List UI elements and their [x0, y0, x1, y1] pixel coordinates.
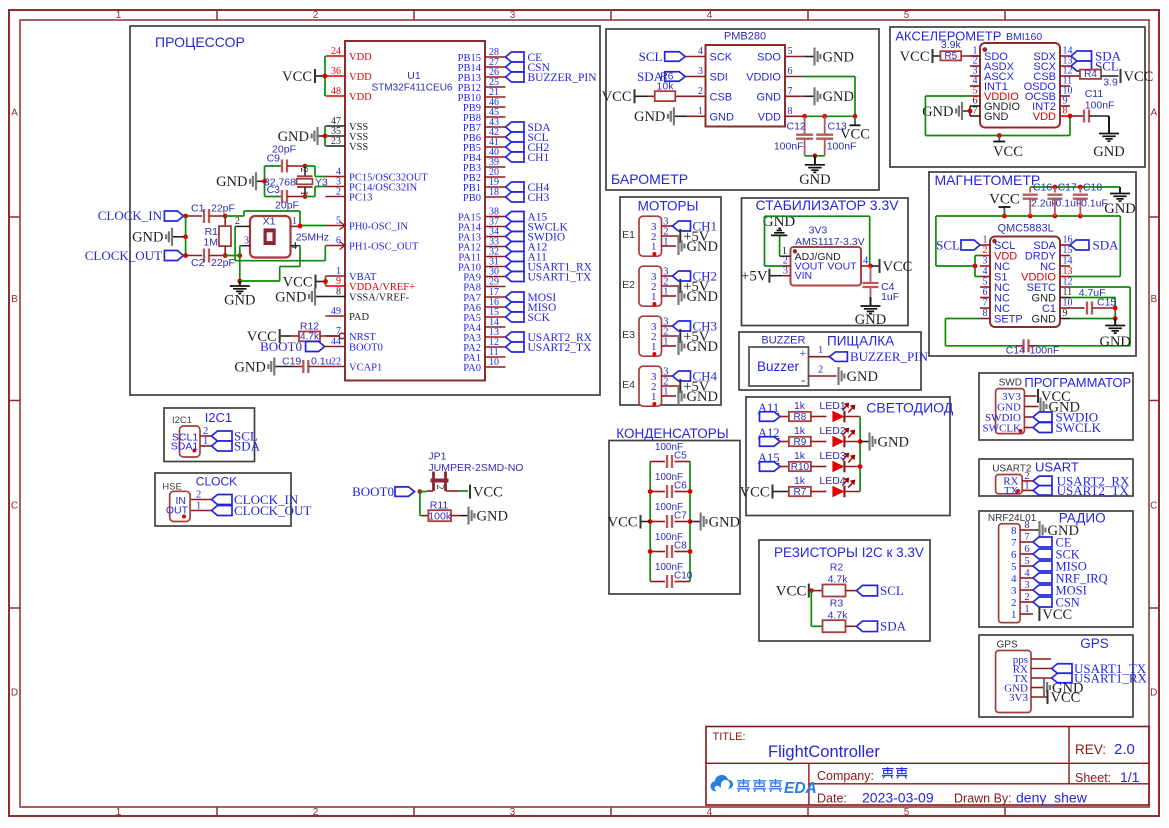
capacitor C12 100nF: [774, 116, 813, 156]
power flag VCC below BMI160: [993, 136, 1023, 161]
svg-text:GND: GND: [878, 434, 909, 450]
svg-text:1k: 1k: [794, 475, 806, 487]
junction C2-R1 node: [223, 253, 228, 258]
pin 1 (SDO): [970, 46, 1008, 64]
wire C1 node to X1 pin1 and PH0: [225, 211, 325, 226]
port SWCLK: [506, 222, 569, 234]
port SCL from BMI160: [1071, 59, 1119, 74]
svg-text:BUZZER_PIN: BUZZER_PIN: [850, 349, 929, 364]
power flag VCC at SWD: [1038, 389, 1071, 405]
block frame I2C1: [164, 408, 255, 462]
svg-text:+5V: +5V: [741, 269, 768, 285]
pin 22 (VCAP1) of U1: [326, 357, 383, 374]
block frame СТАБИЛИЗАТОР 3.3V: [742, 198, 909, 326]
svg-text:SDA: SDA: [880, 619, 907, 634]
pin 2 (VDD): [980, 245, 1017, 263]
ground GND at C11: [1093, 116, 1124, 160]
wire X1 pin3 link: [240, 245, 242, 247]
svg-text:VCC: VCC: [989, 192, 1020, 208]
pin 10 (OCSB): [1025, 86, 1073, 104]
svg-text:4: 4: [1024, 568, 1030, 579]
pin 8 (VDD): [758, 106, 805, 124]
svg-text:I2C1: I2C1: [172, 415, 192, 426]
pin 10 (PA0) of U1: [463, 357, 505, 374]
svg-text:GND: GND: [234, 359, 265, 375]
capacitor C19 0.1u: [282, 356, 332, 374]
pin 11 (GND): [1032, 287, 1073, 305]
svg-text:12: 12: [1063, 277, 1073, 288]
svg-text:C9: C9: [267, 153, 281, 165]
pin 4 (PC15/OSC32OUT) of U1: [326, 167, 429, 184]
svg-text:GND: GND: [757, 91, 782, 103]
svg-text:6: 6: [983, 287, 988, 298]
pin 5 (SDO): [757, 46, 805, 64]
port NRF_IRQ: [1033, 571, 1108, 585]
svg-text:GND: GND: [687, 339, 718, 355]
junction X1 pin1 node: [298, 224, 303, 229]
svg-text:LED2: LED2: [819, 425, 845, 437]
pin 10 (C1): [1042, 298, 1073, 316]
op-amp U2 body PMB280: [706, 31, 786, 127]
svg-text:VCC: VCC: [608, 514, 638, 530]
pin 49 (PAD) of U1: [326, 306, 370, 323]
svg-text:VCC: VCC: [1042, 607, 1072, 623]
svg-text:BUZZER_PIN: BUZZER_PIN: [528, 72, 598, 84]
connector E2: [622, 266, 679, 306]
pin 3 (ASCX): [970, 66, 1015, 84]
junction VCC tap node: [997, 133, 1002, 138]
svg-text:Drawn By:: Drawn By:: [954, 792, 1012, 806]
ground GND at E3: [677, 337, 718, 355]
junction S1 feed: [973, 264, 978, 269]
svg-text:1: 1: [818, 345, 823, 356]
title block texts: [713, 731, 1140, 806]
resistor R6 10k: [648, 71, 675, 102]
svg-text:2: 2: [336, 187, 341, 198]
svg-text:МОТОРЫ: МОТОРЫ: [638, 199, 699, 214]
svg-text:14: 14: [1063, 256, 1073, 267]
svg-text:4: 4: [698, 46, 703, 57]
svg-text:1uF: 1uF: [881, 291, 899, 303]
port USART2_RX: [1033, 473, 1130, 488]
svg-text:LED4: LED4: [819, 475, 845, 487]
svg-text:2: 2: [235, 216, 240, 227]
ground GND at C19: [234, 358, 292, 376]
wire VDD bus: [324, 56, 326, 96]
power flag VCC at R7: [740, 484, 789, 500]
svg-text:USART1_TX: USART1_TX: [528, 272, 593, 284]
svg-text:VCC: VCC: [900, 49, 930, 65]
svg-text:GND: GND: [1093, 144, 1124, 160]
svg-text:R11: R11: [430, 499, 449, 511]
pin 3 (NC): [980, 256, 1010, 274]
svg-text:49: 49: [331, 306, 341, 317]
svg-text:1: 1: [651, 391, 657, 403]
junction VDD-C13: [822, 114, 827, 119]
svg-text:LED3: LED3: [819, 450, 845, 462]
block frame USART: [979, 459, 1133, 496]
svg-text:3: 3: [698, 66, 703, 77]
svg-text:8: 8: [1011, 525, 1017, 537]
LED LED3: [819, 450, 854, 472]
svg-text:R12: R12: [300, 321, 319, 333]
svg-text:МАГНЕТОМЕТР: МАГНЕТОМЕТР: [935, 172, 1041, 188]
svg-text:5: 5: [983, 277, 988, 288]
ground GND below X1: [224, 281, 255, 309]
wire C2 node to X1: [225, 255, 240, 257]
pin 1 (SCL): [980, 235, 1015, 253]
pin 36 (VDD) of U1: [326, 66, 373, 83]
resistor R5 3.9k: [940, 39, 980, 62]
resistor R11 100k: [422, 499, 460, 522]
connector E1: [622, 216, 679, 256]
svg-text:PB0: PB0: [463, 193, 481, 204]
junction cathode bus 2: [858, 464, 863, 469]
port CE: [1033, 535, 1072, 549]
ground GND at GNDIO: [922, 102, 970, 120]
port SCL from I2C1: [212, 429, 258, 444]
svg-text:8: 8: [983, 308, 988, 319]
svg-text:1M: 1M: [203, 237, 218, 249]
wire LED3 cathode: [844, 466, 860, 468]
block frame РЕЗИСТОРЫ I2C к 3.3V: [759, 540, 930, 641]
svg-text:1: 1: [983, 235, 988, 246]
svg-text:GND: GND: [823, 89, 854, 105]
svg-text:A: A: [1150, 108, 1157, 119]
pin 17 (PA7) of U1: [463, 287, 505, 304]
svg-text:Date:: Date:: [817, 792, 847, 806]
op-amp U3 body BMI160: [980, 43, 1060, 128]
svg-text:4: 4: [863, 256, 869, 267]
port USART2_TX: [506, 342, 593, 354]
svg-text:СВЕТОДИОД: СВЕТОДИОД: [866, 400, 953, 416]
svg-text:I2C1: I2C1: [205, 410, 232, 425]
junction cap rail left: [648, 489, 653, 494]
svg-text:USART1_RX: USART1_RX: [1074, 670, 1148, 685]
pin 6 (NC): [980, 287, 1010, 305]
junction cap rail left: [648, 519, 653, 524]
svg-text:2: 2: [313, 807, 319, 818]
svg-text:GND: GND: [634, 109, 665, 125]
wire X1 pin2 to PH1: [235, 246, 325, 261]
svg-text:5: 5: [1011, 561, 1017, 573]
resistor R8 1k: [789, 400, 827, 423]
junction VSS bus: [323, 134, 328, 139]
svg-text:VDD: VDD: [1033, 111, 1056, 123]
svg-text:GND: GND: [922, 104, 953, 120]
ground GND at PMB280 pin1: [634, 107, 686, 125]
svg-text:D: D: [11, 688, 18, 699]
svg-text:R3: R3: [830, 598, 844, 610]
resistor R10 1k: [789, 450, 827, 473]
pin 11 (OSDO): [1024, 76, 1073, 94]
op-amp U1 body STM32F411CEU6: [345, 41, 485, 381]
port CE: [506, 52, 543, 64]
svg-text:PC13: PC13: [349, 192, 372, 203]
resistor R4 3.9: [1080, 69, 1119, 88]
svg-text:C: C: [11, 501, 18, 512]
resistor R1 1M: [203, 216, 231, 256]
svg-text:GND: GND: [132, 230, 163, 246]
svg-text:BUZZER: BUZZER: [761, 335, 805, 347]
junction cap rail right: [688, 519, 693, 524]
svg-text:SCL: SCL: [936, 238, 960, 253]
capacitor C15 4.7uF: [1070, 287, 1116, 315]
svg-text:7: 7: [1011, 537, 1017, 549]
svg-text:D: D: [1150, 688, 1157, 699]
port BOOT0 at JP1: [352, 484, 414, 499]
pin 34 (PA13) of U1: [458, 227, 505, 244]
svg-text:48: 48: [331, 86, 341, 97]
junction VDD-C11 node: [1068, 114, 1073, 119]
svg-text:SDO: SDO: [757, 52, 781, 64]
junction VDD bus: [323, 74, 328, 79]
port MISO: [1033, 559, 1087, 573]
svg-text:1: 1: [651, 341, 657, 353]
wire CSB to R4: [1070, 75, 1080, 77]
svg-text:X1: X1: [263, 216, 276, 228]
svg-text:3: 3: [983, 256, 988, 267]
svg-text:C8: C8: [674, 541, 687, 552]
pin 4 (VOUT) of 3V3: [827, 256, 870, 273]
svg-text:2: 2: [1011, 597, 1017, 609]
svg-text:BOOT0: BOOT0: [260, 339, 302, 354]
wire CLOCK_IN vertical: [185, 216, 187, 256]
svg-text:10: 10: [489, 357, 499, 368]
junction VDD-VCC: [853, 114, 858, 119]
pin 3 (SDI): [685, 66, 728, 84]
capacitor C14 100nF: [1006, 339, 1060, 356]
port A15: [758, 451, 780, 471]
pin 6 (GNDIO): [970, 96, 1021, 114]
svg-text:C1: C1: [191, 203, 205, 215]
svg-text:QMC5883L: QMC5883L: [997, 223, 1053, 235]
svg-text:E4: E4: [622, 379, 635, 391]
svg-text:3V3: 3V3: [1009, 692, 1028, 704]
logo JLCEDA: [710, 775, 733, 792]
pin 2 (CSB): [675, 86, 732, 104]
svg-text:СТАБИЛИЗАТОР 3.3V: СТАБИЛИЗАТОР 3.3V: [756, 197, 900, 213]
wire LED cathode bus: [859, 417, 861, 492]
port SDA: [506, 122, 552, 134]
wire X1 pin2 down: [234, 226, 236, 260]
wire Y3 pin1 to PC14: [305, 187, 326, 197]
svg-text:25MHz: 25MHz: [296, 232, 329, 244]
svg-text:GND: GND: [687, 389, 718, 405]
pin 43 (PB7) of U1: [463, 117, 506, 134]
ground GND at LEDs: [860, 433, 909, 451]
pin 41 (PB5) of U1: [463, 137, 506, 154]
pin 5 (VDDIO): [970, 86, 1019, 104]
pin 7 (GND): [970, 106, 1009, 124]
block frame МОТОРЫ: [620, 197, 721, 405]
port SWDIO: [506, 232, 566, 244]
svg-text:C3: C3: [267, 184, 281, 196]
power flag +5V at E3: [680, 329, 709, 345]
svg-text:Company:: Company:: [817, 769, 874, 783]
svg-text:VDD: VDD: [349, 92, 372, 103]
svg-text:EDA: EDA: [784, 780, 817, 797]
svg-text:R4: R4: [1084, 69, 1097, 80]
power flag VCC at U1 VDD: [282, 69, 325, 85]
svg-text:8: 8: [788, 106, 793, 117]
junction cap rail left: [648, 549, 653, 554]
junction Y3 pin2 node: [303, 164, 308, 169]
svg-text:2: 2: [298, 168, 309, 173]
pin 7 (NC): [980, 298, 1010, 316]
capacitor C9 20pF: [265, 144, 306, 173]
svg-text:GND: GND: [278, 129, 309, 145]
pin 3 (VIN) of 3V3: [782, 265, 813, 282]
svg-text:VIN: VIN: [795, 270, 813, 282]
svg-text:БАРОМЕТР: БАРОМЕТР: [611, 171, 688, 187]
junction cathode bus 1: [858, 439, 863, 444]
junction C15 gnd node: [1113, 316, 1118, 321]
connector USART2: [992, 464, 1033, 498]
resistor R7 1k: [789, 475, 827, 498]
svg-text:GND: GND: [847, 369, 878, 385]
svg-text:44: 44: [331, 337, 341, 348]
svg-text:GND: GND: [710, 111, 735, 123]
svg-text:3.9k: 3.9k: [941, 39, 962, 51]
capacitor C3 20pF: [265, 184, 306, 212]
port USART2_RX: [506, 332, 593, 344]
port MOSI: [1033, 583, 1087, 597]
svg-text:2023-03-09: 2023-03-09: [862, 790, 934, 806]
svg-text:deny_shew: deny_shew: [1016, 790, 1088, 806]
wire VCC down to R3: [811, 591, 822, 627]
wire LED4 cathode: [844, 491, 860, 493]
wire capacitor bank left rail: [649, 462, 651, 582]
port CH3: [506, 192, 550, 204]
svg-text:SDA: SDA: [234, 439, 261, 454]
ground GND at VSSA: [275, 288, 325, 306]
pin 14 (SDX): [1033, 46, 1072, 64]
svg-text:1: 1: [651, 241, 657, 253]
svg-text:100k: 100k: [428, 511, 452, 523]
pin 26 (PB13) of U1: [458, 67, 506, 84]
pin 24 (VDD) of U1: [326, 46, 373, 63]
wire Y3 ground bus: [264, 166, 266, 197]
svg-text:VCC: VCC: [776, 584, 807, 600]
svg-text:NRST: NRST: [349, 332, 376, 343]
wire port to R9: [780, 441, 789, 443]
power flag VCC at R12: [247, 329, 291, 345]
svg-text:U1: U1: [407, 70, 421, 82]
svg-text:C19: C19: [282, 356, 301, 368]
wire LED1 cathode: [844, 416, 860, 418]
svg-text:GPS: GPS: [1080, 636, 1109, 651]
port USART1_TX from GPS: [1052, 661, 1147, 676]
junction R2 R3 node: [809, 588, 814, 593]
pin 5 (PH0-OSC_IN) of U1: [326, 216, 409, 233]
wire SETC loop: [1036, 287, 1130, 346]
power flag VCC at R5: [900, 49, 941, 65]
block frame GPS: [979, 635, 1133, 717]
junction VDD-C12: [802, 114, 807, 119]
svg-text:4.7k: 4.7k: [828, 610, 849, 622]
svg-text:1: 1: [292, 216, 297, 227]
port CH3: [673, 319, 718, 334]
svg-text:E1: E1: [622, 229, 635, 241]
svg-text:Sheet:: Sheet:: [1075, 771, 1111, 785]
svg-text:C18: C18: [1083, 182, 1102, 194]
svg-text:SWCLK: SWCLK: [983, 422, 1022, 434]
svg-text:SCL: SCL: [639, 49, 663, 64]
capacitor C7 100nF: [650, 502, 690, 528]
pin 1 (VBAT) of U1: [326, 266, 378, 283]
svg-text:1: 1: [651, 291, 657, 303]
svg-text:R7: R7: [794, 487, 807, 498]
pin 29 (PA8) of U1: [463, 277, 505, 294]
junction X1 bottom node: [237, 253, 242, 258]
power flag VCC at JP1: [470, 484, 503, 500]
pin 16 (PA6) of U1: [463, 297, 505, 314]
capacitor C10 100nF: [650, 562, 693, 588]
junction CLOCK_IN node: [183, 214, 188, 219]
svg-text:22pF: 22pF: [211, 257, 235, 269]
svg-text:R8: R8: [794, 412, 807, 423]
svg-text:VDD: VDD: [349, 72, 372, 83]
LED LED1: [819, 400, 854, 422]
svg-text:5: 5: [904, 10, 910, 21]
svg-text:2: 2: [698, 86, 703, 97]
port SWDIO: [1033, 410, 1098, 425]
pin 32 (PA11) of U1: [458, 247, 505, 264]
svg-text:R10: R10: [791, 462, 810, 473]
pin 13 (SCX): [1033, 56, 1072, 74]
ground GND at R11: [460, 507, 508, 525]
wire X1 pin4 loop: [240, 246, 300, 281]
junction VOUT node: [868, 264, 873, 269]
svg-text:C: C: [1150, 501, 1157, 512]
ground GND at E1: [677, 237, 718, 255]
pin 1 (GND): [686, 106, 734, 124]
pin 8 (SETP): [980, 308, 1023, 326]
capacitor C13 100nF: [816, 116, 856, 156]
svg-text:AMS1117-3.3V: AMS1117-3.3V: [795, 236, 865, 248]
ground GND at SWD: [1039, 398, 1080, 416]
svg-text:SWCLK: SWCLK: [1056, 420, 1102, 435]
connector E3: [622, 316, 679, 356]
pin 20 (PB2) of U1: [463, 167, 506, 184]
pin 31 (PA10) of U1: [458, 257, 505, 274]
pin 9 (GND): [1032, 308, 1070, 326]
svg-text:100nF: 100nF: [1030, 345, 1060, 357]
svg-text:5: 5: [904, 807, 910, 818]
svg-text:R6: R6: [660, 71, 674, 83]
svg-text:GPS: GPS: [997, 640, 1018, 651]
svg-text:6: 6: [788, 66, 793, 77]
resistor R2 4.7k: [811, 562, 856, 597]
pin 13 (VDDIO): [1021, 266, 1072, 284]
wire SETP loop: [945, 319, 1016, 346]
port SDA from QMC5883L: [1070, 238, 1119, 253]
LED LED2: [819, 425, 854, 447]
svg-text:R2: R2: [830, 562, 844, 574]
svg-text:C6: C6: [674, 481, 687, 492]
svg-text:CH1: CH1: [528, 152, 550, 164]
svg-text:4: 4: [707, 807, 713, 818]
svg-text:SCL: SCL: [880, 583, 904, 598]
pin 7 (NRST) of U1: [326, 326, 377, 343]
port USART1_TX: [506, 272, 593, 284]
pin 4 (INT1): [970, 76, 1008, 94]
jumper JP1 JUMPER-2SMD-NO: [426, 451, 523, 492]
svg-text:+: +: [800, 346, 807, 360]
capacitor C11 100nF: [1070, 88, 1114, 123]
pin 2 (VOUT) of 3V3: [782, 256, 825, 273]
